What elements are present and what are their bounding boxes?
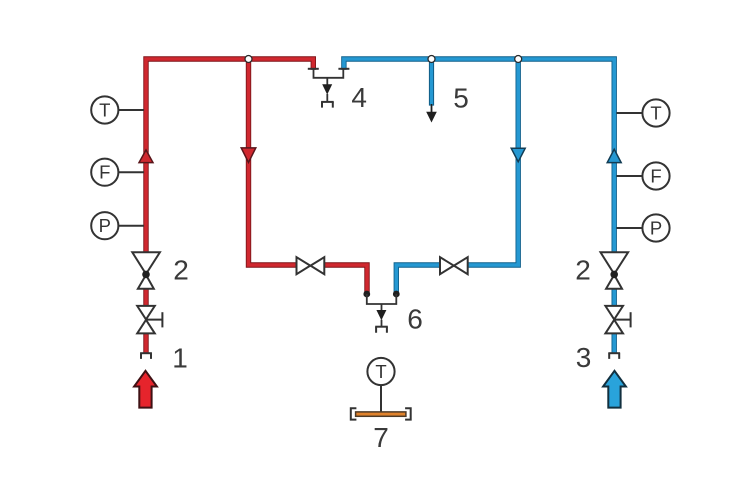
svg-text:T: T bbox=[650, 102, 661, 123]
pipe end fitting on line 3 (staple) bbox=[608, 353, 620, 359]
svg-text:2: 2 bbox=[173, 254, 189, 285]
flow arrow up on blue right riser bbox=[607, 149, 621, 162]
pipe end fitting on line 1 (staple) bbox=[140, 353, 152, 359]
svg-text:7: 7 bbox=[373, 422, 389, 453]
sensor 7: right bracket bbox=[405, 408, 411, 419]
svg-text:F: F bbox=[650, 165, 661, 186]
inlet arrow 1 (red, big) bbox=[134, 371, 157, 408]
wire: blue vent drop 5 bbox=[426, 60, 437, 123]
node: junction on red header bbox=[245, 56, 252, 63]
flow arrow down on blue middle drop bbox=[511, 148, 525, 162]
instrument F left bbox=[91, 159, 144, 186]
wire: red supply riser + top header + stub to valve 4 bbox=[146, 59, 313, 353]
instrument T left bbox=[91, 96, 144, 123]
svg-text:T: T bbox=[99, 99, 110, 120]
flow arrow down on red middle drop bbox=[241, 148, 256, 163]
valve 6: drain assembly at bottom bbox=[363, 291, 399, 333]
sensor 7: orange sensor bar bbox=[356, 412, 406, 416]
svg-text:P: P bbox=[99, 215, 111, 236]
instrument T right bbox=[617, 99, 670, 126]
node: junction on blue header (middle drop) bbox=[515, 56, 522, 63]
instrument F right bbox=[617, 162, 670, 189]
balancing valve on blue bottom run (horizontal bowtie) bbox=[440, 257, 468, 274]
svg-text:3: 3 bbox=[576, 342, 592, 373]
wire: blue middle drop + bottom run to valve 6 bbox=[396, 57, 518, 293]
flow arrow up on red riser bbox=[139, 150, 153, 163]
svg-text:F: F bbox=[99, 162, 110, 183]
sensor 7: thermometer bubble bbox=[367, 358, 394, 412]
inlet arrow 3 (blue, big) bbox=[603, 371, 626, 408]
valve 4: air vent / drain assembly at top bbox=[308, 69, 350, 108]
valve 2 right: pressure reducing valve body bbox=[601, 252, 629, 288]
svg-text:4: 4 bbox=[351, 82, 367, 113]
svg-text:5: 5 bbox=[453, 83, 469, 114]
sensor 7: left bracket bbox=[351, 408, 357, 419]
svg-text:2: 2 bbox=[575, 255, 591, 286]
valve 2 right: stem dot bbox=[610, 271, 618, 279]
wire: red middle drop + bottom run to valve 6 bbox=[249, 57, 368, 293]
svg-text:1: 1 bbox=[172, 343, 188, 374]
svg-text:T: T bbox=[375, 361, 386, 382]
svg-text:P: P bbox=[650, 217, 662, 238]
valve 2 left: pressure reducing valve body bbox=[132, 252, 160, 288]
shut-off valve on line 1 (vertical bowtie with handle) bbox=[137, 306, 162, 334]
node: junction on blue header (vent 5) bbox=[428, 56, 435, 63]
svg-text:6: 6 bbox=[407, 303, 423, 334]
balancing valve on red bottom run (horizontal bowtie) bbox=[297, 257, 325, 274]
instrument P left bbox=[91, 212, 144, 239]
valve 2 left: stem dot bbox=[142, 271, 150, 279]
instrument P right bbox=[617, 214, 670, 241]
shut-off valve on line 3 (vertical bowtie with handle) bbox=[605, 306, 630, 334]
wire: blue top header from valve 4 + right riser bbox=[344, 59, 614, 353]
